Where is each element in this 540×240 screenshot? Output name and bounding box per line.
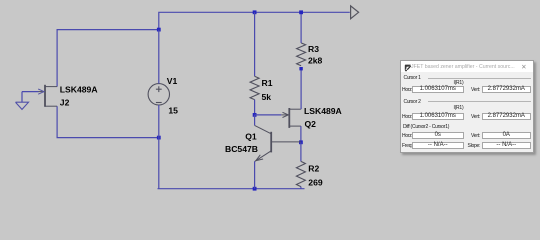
- row 4 Freq/Slope: [402, 143, 412, 149]
- wire Q2 drain up to R3: [300, 69, 302, 110]
- svg-text:V1: V1: [167, 76, 178, 86]
- Cursor 2 group label: [404, 99, 421, 105]
- svg-text:15: 15: [168, 105, 178, 115]
- trace name I(R1): [454, 105, 464, 111]
- transistor J2 (JFET LSK489A): [38, 85, 57, 107]
- transistor Q1 (BJT BC547B): [255, 125, 301, 161]
- wire top rail: [159, 12, 350, 29]
- wire R2 bottom: [300, 187, 302, 189]
- svg-text:LSK489A: LSK489A: [304, 106, 342, 116]
- node dot Q2 source / Q1 base / R2 top: [299, 140, 303, 144]
- resistor R2 269: [296, 161, 305, 186]
- wire Q1 emitter down: [254, 161, 256, 188]
- svg-text:2k8: 2k8: [308, 56, 323, 66]
- wire V1 top: [158, 30, 160, 84]
- node dot emitter/rail: [253, 187, 257, 191]
- wire gate riser: [22, 92, 39, 103]
- svg-text:Q1: Q1: [245, 132, 257, 142]
- Cursor 1 group label: [404, 75, 421, 81]
- wire left rail to J2 drain: [57, 30, 159, 87]
- wire V1 bottom to rail: [158, 105, 160, 189]
- svg-text:BC547B: BC547B: [225, 144, 258, 154]
- trace name I(R1): [454, 80, 464, 86]
- voltage source V1: [148, 84, 169, 105]
- svg-text:J2: J2: [60, 98, 70, 108]
- wire R1 bottom to node A: [254, 100, 256, 115]
- node dot A: [253, 113, 257, 117]
- row 3 Horz/Vert diff: [402, 133, 413, 139]
- svg-text:5k: 5k: [262, 92, 272, 102]
- svg-text:R3: R3: [308, 44, 319, 54]
- svg-text:R2: R2: [308, 163, 319, 173]
- wire R2 top: [300, 142, 302, 161]
- svg-text:LSK489A: LSK489A: [60, 85, 98, 95]
- node dot R3 bottom: [299, 67, 302, 70]
- ground symbol: [16, 102, 29, 109]
- Diff group label: [403, 124, 449, 130]
- cursor dialog window: [400, 60, 534, 153]
- svg-text:Q2: Q2: [305, 119, 317, 129]
- row 1 Horz/Vert: [402, 87, 413, 93]
- node dot on top rail at R3: [299, 10, 303, 14]
- row 2 Horz/Vert: [402, 114, 413, 120]
- wire R1 top: [254, 12, 256, 76]
- window title bar: [401, 61, 533, 72]
- svg-text:269: 269: [308, 177, 323, 187]
- bottom rail wire: [158, 188, 305, 190]
- node dot on top rail at R1: [253, 10, 257, 14]
- window close button: [521, 63, 526, 71]
- wire Q2 source down: [300, 126, 302, 142]
- wire R3 top: [300, 12, 302, 43]
- window title text: [411, 64, 515, 70]
- wire node A to Q1 collector: [254, 115, 256, 126]
- output port arrow: [351, 6, 359, 19]
- node dot J2 source / V1 bottom: [157, 136, 161, 140]
- svg-text:R1: R1: [262, 78, 273, 88]
- resistor R1 5k: [250, 76, 259, 99]
- node dot at V1 top: [157, 28, 161, 32]
- wire J2 source to bottom: [57, 106, 159, 137]
- resistor R3 2k8: [297, 43, 306, 66]
- transistor Q2 (JFET LSK489A): [281, 108, 301, 128]
- LTspice icon: [404, 64, 412, 72]
- wire node A to Q2 gate: [255, 114, 282, 116]
